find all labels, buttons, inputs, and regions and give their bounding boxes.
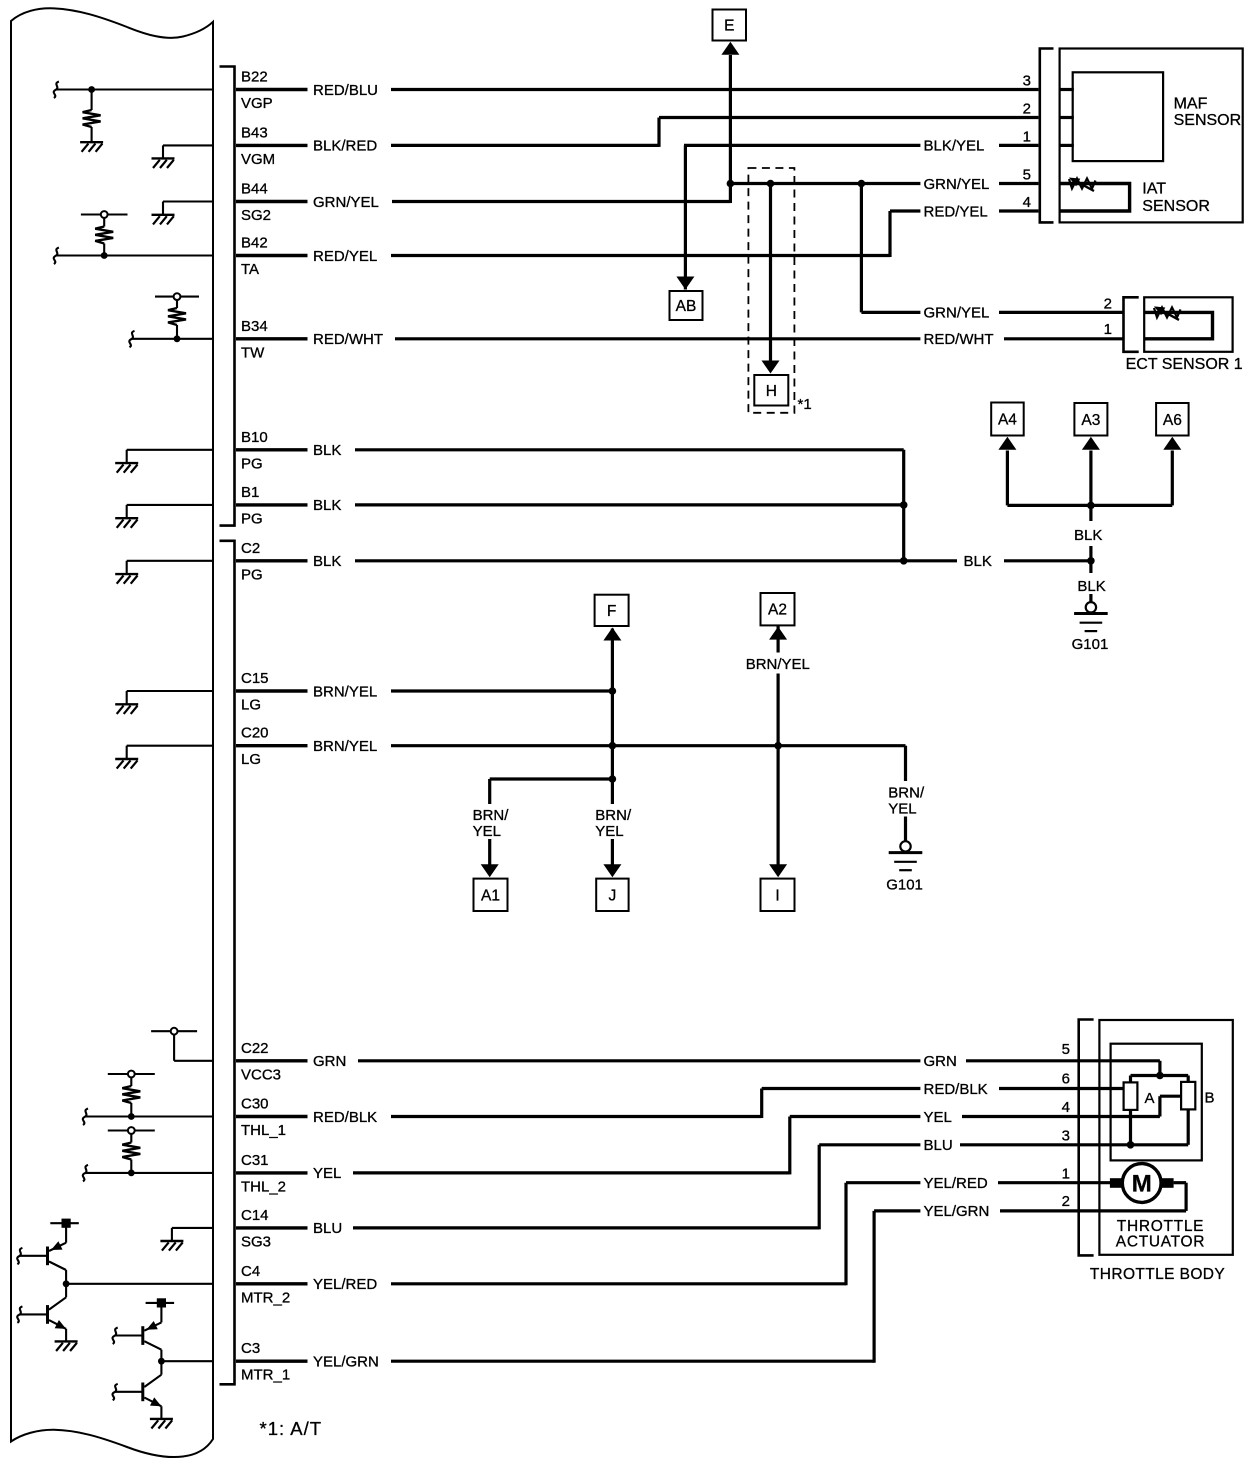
svg-text:RED/BLK: RED/BLK (313, 1109, 377, 1126)
svg-text:RED/BLK: RED/BLK (924, 1081, 988, 1098)
PNP base lead (20, 1255, 48, 1257)
svg-text:A2: A2 (768, 602, 787, 619)
svg-text:PG: PG (241, 510, 263, 527)
node junction VGP (88, 86, 95, 93)
C15 internal ground wire (127, 690, 213, 692)
svg-text:BLK: BLK (313, 497, 341, 514)
svg-text:*1: *1 (798, 396, 812, 413)
resistor VGP pulldown (91, 90, 93, 111)
NPN emitter with arrow (144, 1398, 161, 1407)
svg-text:E: E (724, 18, 734, 35)
svg-text:RED/BLU: RED/BLU (313, 82, 378, 99)
MAF pin stubs (1060, 88, 1074, 91)
svg-text:YEL: YEL (924, 1109, 952, 1126)
node junction at H drop (767, 180, 775, 188)
svg-text:LG: LG (241, 751, 261, 768)
svg-text:F: F (607, 603, 616, 620)
node junction at ECT drop (858, 180, 866, 188)
THL_2 internal wire (86, 1172, 214, 1174)
wire drop to connector H (769, 184, 772, 361)
arrow into H (762, 361, 780, 374)
svg-text:5: 5 (1023, 166, 1031, 183)
ECT thermistor (1154, 307, 1181, 317)
svg-text:4: 4 (1023, 194, 1031, 211)
TA internal wire (56, 254, 213, 256)
svg-text:3: 3 (1062, 1127, 1070, 1144)
wire YEL/GRN C3 to throttle pin 2 (391, 1360, 874, 1363)
svg-text:C14: C14 (241, 1207, 269, 1224)
ground SG2 (152, 215, 175, 225)
SG3 internal ground wire (172, 1227, 213, 1229)
svg-text:YEL: YEL (473, 823, 501, 840)
svg-text:RED/WHT: RED/WHT (924, 331, 994, 348)
wire branch to A1 (490, 777, 613, 780)
svg-text:A6: A6 (1163, 412, 1182, 429)
connector I (761, 879, 795, 911)
svg-text:VGP: VGP (241, 95, 273, 112)
connector E (713, 10, 747, 41)
B10 internal ground wire (127, 449, 213, 451)
svg-text:VGM: VGM (241, 151, 275, 168)
connector A1 (474, 879, 508, 911)
arrow into AB (676, 277, 694, 290)
svg-text:3: 3 (1023, 72, 1031, 89)
pin C2/PG stub and labels (236, 559, 308, 562)
ground B10 (115, 463, 138, 473)
svg-text:BRN/YEL: BRN/YEL (313, 738, 377, 755)
svg-text:B22: B22 (241, 69, 268, 86)
svg-text:YEL/RED: YEL/RED (313, 1276, 377, 1293)
node junction C20/A2 (774, 742, 782, 750)
throttle motor (1122, 1164, 1161, 1203)
pin B34/TW stub and labels (236, 337, 308, 340)
svg-text:BLK: BLK (313, 442, 341, 459)
supply rail (filled square) (50, 1222, 79, 1224)
ECT sensor box (1144, 297, 1232, 352)
arrow into A3 (1082, 437, 1100, 450)
svg-text:BRN/YEL: BRN/YEL (313, 683, 377, 700)
NPN base lead (115, 1391, 143, 1393)
svg-text:MTR_1: MTR_1 (241, 1367, 290, 1384)
MAF sensor outer box (1060, 49, 1243, 223)
svg-text:C15: C15 (241, 670, 269, 687)
ground emitter (55, 1341, 78, 1351)
svg-text:B10: B10 (241, 429, 268, 446)
node junction on A-bus (1087, 502, 1095, 510)
svg-text:PG: PG (241, 566, 263, 583)
node junction C20/F (609, 742, 617, 750)
wire YEL/RED C4 to throttle pin 1 (391, 1282, 846, 1285)
TW internal wire (132, 338, 213, 340)
node junction driver output (158, 1358, 165, 1365)
svg-text:6: 6 (1062, 1071, 1070, 1088)
ECM connector B strip (220, 67, 235, 526)
node junction TPS supply (1156, 1072, 1164, 1080)
arrow into A2 (769, 627, 787, 640)
PNP base lead (115, 1334, 143, 1336)
svg-text:B44: B44 (241, 181, 268, 198)
svg-text:BLK/YEL: BLK/YEL (924, 138, 985, 155)
TPS resistor B (1181, 1082, 1195, 1110)
svg-text:J: J (609, 887, 617, 904)
pin B43/VGM stub and labels (236, 144, 308, 147)
svg-text:BRN/: BRN/ (888, 785, 925, 802)
MTR_1 internal wire (161, 1360, 213, 1362)
svg-text:RED/YEL: RED/YEL (924, 203, 988, 220)
wire BLK B1 (355, 503, 904, 506)
svg-text:RED/WHT: RED/WHT (313, 331, 383, 348)
MAF sensing element (1073, 72, 1163, 161)
wire BLK B10 ground bus (355, 448, 904, 451)
svg-text:BRN/: BRN/ (595, 807, 632, 824)
arrow into I (769, 864, 787, 877)
svg-text:1: 1 (1023, 128, 1031, 145)
arrow into F (603, 628, 621, 641)
svg-text:B34: B34 (241, 318, 268, 335)
svg-text:A1: A1 (481, 887, 500, 904)
wire BRN/YEL C15 (391, 689, 612, 692)
pin C4/MTR_2 stub and labels (236, 1282, 308, 1285)
svg-text:RED/YEL: RED/YEL (313, 248, 377, 265)
svg-text:YEL/RED: YEL/RED (924, 1175, 988, 1192)
ground bus to A4/A3/A6 (1007, 504, 1172, 507)
TA internal pull-up supply (81, 213, 128, 215)
resistor TW pull-up (176, 300, 178, 308)
node junction THL_2 (128, 1170, 135, 1177)
ground VGM (152, 158, 175, 168)
svg-text:THL_1: THL_1 (241, 1122, 286, 1139)
svg-text:BLU: BLU (924, 1137, 953, 1154)
svg-text:GRN/YEL: GRN/YEL (924, 176, 990, 193)
wire RED/YEL B42 to IAT pin 4 (391, 254, 890, 257)
pin C3/MTR_1 stub and labels (236, 1359, 308, 1362)
VGM internal ground wire (163, 144, 213, 146)
svg-text:MAF: MAF (1174, 96, 1208, 113)
svg-text:IAT: IAT (1142, 180, 1166, 197)
SG2 internal ground wire (163, 200, 213, 202)
IAT element loop (1060, 184, 1130, 212)
svg-text:B43: B43 (241, 124, 268, 141)
ground C2 (115, 574, 138, 584)
ground VGP (80, 142, 103, 152)
wire GRN/YEL bus to IAT pin 5 (730, 182, 920, 185)
svg-text:GRN: GRN (313, 1053, 346, 1070)
PNP collector (144, 1341, 161, 1350)
transistor PNP (upper) (141, 1326, 144, 1345)
ECM connector C strip (220, 541, 235, 1385)
svg-text:SG3: SG3 (241, 1233, 271, 1250)
svg-text:ACTUATOR: ACTUATOR (1116, 1234, 1205, 1251)
wire RED/BLU B22 to MAF pin 3 (391, 88, 1038, 91)
svg-text:SENSOR: SENSOR (1142, 198, 1210, 215)
B1 internal ground wire (127, 504, 213, 506)
svg-text:H: H (766, 383, 777, 400)
svg-text:4: 4 (1062, 1099, 1070, 1116)
node junction C2 bus (900, 557, 908, 565)
pin B42/TA stub and labels (236, 254, 308, 257)
svg-text:TA: TA (241, 261, 259, 278)
wire GRN C22 to throttle pin 5 (358, 1059, 920, 1062)
TPS wire pin 3 (1079, 1143, 1189, 1146)
wire GRN/YEL B44 sensor-ground rise to E (392, 200, 730, 203)
svg-text:BRN/YEL: BRN/YEL (746, 656, 810, 673)
svg-text:M: M (1132, 1171, 1152, 1198)
svg-text:2: 2 (1062, 1193, 1070, 1210)
motor wire pin 1 (1079, 1181, 1111, 1184)
svg-text:G101: G101 (1072, 636, 1109, 653)
node junction C15/F (609, 687, 617, 695)
NPN emitter with arrow (49, 1320, 66, 1329)
svg-text:YEL: YEL (313, 1165, 341, 1182)
pin B10/PG stub and labels (236, 448, 308, 451)
svg-text:ECT SENSOR 1: ECT SENSOR 1 (1126, 356, 1243, 373)
svg-text:C20: C20 (241, 725, 269, 742)
svg-text:B1: B1 (241, 484, 259, 501)
svg-text:YEL: YEL (595, 823, 623, 840)
dashed A/T option box (748, 168, 794, 413)
wire BLU C14 to throttle pin 3 (353, 1226, 819, 1229)
wire BLK/YEL MAF pin 1 to connector AB (684, 144, 920, 147)
TW internal pull-up supply (155, 296, 199, 298)
wire BLK bus drop to G101 (1089, 505, 1092, 521)
pin C15/LG stub and labels (236, 689, 308, 692)
svg-text:G101: G101 (886, 877, 923, 894)
connector A3 (1074, 403, 1107, 436)
NPN base lead (20, 1313, 48, 1315)
svg-text:TW: TW (241, 344, 265, 361)
svg-text:BLK: BLK (1077, 578, 1105, 595)
transistor PNP (upper) (46, 1247, 49, 1266)
node junction BLK drop / C2 wire (1087, 557, 1095, 565)
pin C31/THL_2 stub and labels (236, 1171, 308, 1174)
ground SG3 (160, 1241, 183, 1251)
resistor THL_2 pull-up (130, 1134, 132, 1143)
transistor NPN (lower) (141, 1383, 144, 1402)
svg-text:A3: A3 (1081, 412, 1100, 429)
pin C30/THL_1 stub and labels (236, 1115, 308, 1118)
svg-text:THL_2: THL_2 (241, 1178, 286, 1195)
svg-text:5: 5 (1062, 1041, 1070, 1058)
MTR_2 internal wire (66, 1283, 213, 1285)
wire BLK C2 to G101 (355, 559, 957, 562)
wire YEL C31 to throttle pin 4 (353, 1171, 790, 1174)
pin C20/LG stub and labels (236, 744, 308, 747)
node junction THL_1 (128, 1113, 135, 1120)
connector H (754, 375, 788, 406)
svg-text:LG: LG (241, 697, 261, 714)
svg-text:THROTTLE: THROTTLE (1117, 1218, 1204, 1235)
riser to connector F (611, 629, 614, 780)
resistor THL_1 pull-up (130, 1077, 132, 1086)
pin C22/VCC3 stub and labels (236, 1059, 308, 1062)
svg-text:C31: C31 (241, 1152, 269, 1169)
wire BRN/YEL C20 bus (391, 744, 906, 747)
arrow into A4 (998, 437, 1016, 450)
arrow into A6 (1163, 437, 1181, 450)
svg-text:BLK: BLK (1074, 527, 1102, 544)
THL_1 internal pull-up supply (108, 1073, 155, 1075)
ECT sensor connector strip (1124, 297, 1139, 352)
ground C15 (115, 704, 138, 714)
svg-text:A: A (1145, 1090, 1155, 1107)
svg-text:BLK: BLK (964, 553, 992, 570)
svg-text:BLU: BLU (313, 1220, 342, 1237)
svg-text:BRN/: BRN/ (473, 807, 510, 824)
wire RED/BLK C30 to throttle pin 6 (391, 1115, 762, 1118)
wire A2 to I (776, 626, 779, 653)
pin B44/SG2 stub and labels (236, 200, 308, 203)
svg-text:YEL/GRN: YEL/GRN (313, 1354, 379, 1371)
ground C20 (115, 759, 138, 769)
svg-text:B: B (1205, 1090, 1215, 1107)
svg-text:C4: C4 (241, 1263, 260, 1280)
node junction A1 branch (609, 775, 617, 783)
wire BLK/RED B43 to MAF pin 2 (391, 144, 659, 147)
VCC3 internal supply (151, 1030, 197, 1032)
svg-text:I: I (775, 887, 779, 904)
connector F (595, 595, 629, 626)
arrow into E (721, 42, 739, 55)
TPS wire pin 4 wiper (1079, 1115, 1160, 1118)
pin B22/VGP stub and labels (236, 88, 308, 91)
resistor TA pull-up (103, 218, 105, 227)
svg-text:C3: C3 (241, 1340, 260, 1357)
ECM body outline (torn edges) (11, 8, 213, 1457)
C2 internal ground wire (127, 560, 213, 562)
svg-text:GRN/YEL: GRN/YEL (924, 305, 990, 322)
svg-text:1: 1 (1062, 1166, 1070, 1183)
node junction TW (174, 335, 181, 342)
arrow into A1 (481, 864, 499, 877)
THL_1 internal wire (86, 1115, 214, 1117)
svg-text:GRN/YEL: GRN/YEL (313, 194, 379, 211)
ECT element loop (1144, 312, 1212, 338)
svg-text:VCC3: VCC3 (241, 1066, 281, 1083)
ground G101 (right upper) (1086, 602, 1096, 612)
connector AB (670, 291, 703, 320)
C20 internal ground wire (127, 745, 213, 747)
svg-text:2: 2 (1023, 100, 1031, 117)
wire drop to J (611, 779, 614, 804)
node junction TPS ground (1127, 1141, 1135, 1149)
THL_2 internal pull-up supply (108, 1129, 155, 1131)
ground B1 (115, 518, 138, 528)
VGP internal pulldown wire (56, 88, 213, 90)
svg-text:C30: C30 (241, 1096, 269, 1113)
connector A2 (761, 593, 795, 625)
node junction at E riser (727, 180, 735, 188)
svg-text:MTR_2: MTR_2 (241, 1289, 290, 1306)
svg-text:*1: A/T: *1: A/T (260, 1418, 323, 1439)
svg-text:AB: AB (676, 298, 697, 315)
pin C14/SG3 stub and labels (236, 1226, 308, 1229)
node junction driver output (63, 1280, 70, 1287)
svg-text:YEL: YEL (888, 801, 916, 818)
throttle position sensor box (1111, 1044, 1202, 1161)
wire BRN/YEL drop to G101 (right lower) (904, 746, 907, 781)
ground G101 (right lower) (900, 841, 910, 851)
transistor NPN (lower) (46, 1305, 49, 1324)
svg-text:A4: A4 (998, 412, 1017, 429)
ground emitter (150, 1419, 173, 1429)
node junction B1/B10 (900, 501, 908, 509)
wire RED/WHT B34 to ECT pin 1 (395, 337, 920, 340)
svg-text:THROTTLE BODY: THROTTLE BODY (1090, 1266, 1225, 1283)
svg-text:PG: PG (241, 455, 263, 472)
svg-text:B42: B42 (241, 235, 268, 252)
motor wire pin 2 (1174, 1181, 1187, 1184)
connector A4 (991, 403, 1024, 436)
throttle body connector strip (1079, 1020, 1094, 1256)
supply rail (filled square) (146, 1302, 175, 1304)
IAT thermistor (1069, 179, 1096, 189)
svg-text:1: 1 (1104, 321, 1112, 338)
svg-text:SENSOR: SENSOR (1174, 112, 1242, 129)
pin B1/PG stub and labels (236, 503, 308, 506)
connector A6 (1156, 403, 1189, 436)
connector J (596, 879, 628, 911)
MAF sensor connector strip (1040, 49, 1054, 223)
TPS wire pin 6 (1079, 1087, 1124, 1090)
wire GRN/YEL drop to ECT pin 2 (860, 184, 863, 313)
svg-text:GRN: GRN (924, 1053, 957, 1070)
svg-text:C2: C2 (241, 540, 260, 557)
throttle body box (1099, 1020, 1232, 1255)
node junction TA (101, 252, 108, 259)
svg-text:YEL/GRN: YEL/GRN (924, 1203, 990, 1220)
TPS supply wire pin 5 (1079, 1059, 1160, 1062)
svg-text:C22: C22 (241, 1040, 269, 1057)
svg-text:SG2: SG2 (241, 207, 271, 224)
PNP collector (49, 1262, 66, 1271)
TPS resistor A (1124, 1082, 1138, 1110)
svg-text:BLK: BLK (313, 553, 341, 570)
svg-text:2: 2 (1104, 295, 1112, 312)
svg-text:BLK/RED: BLK/RED (313, 138, 377, 155)
arrow into J (603, 864, 621, 877)
